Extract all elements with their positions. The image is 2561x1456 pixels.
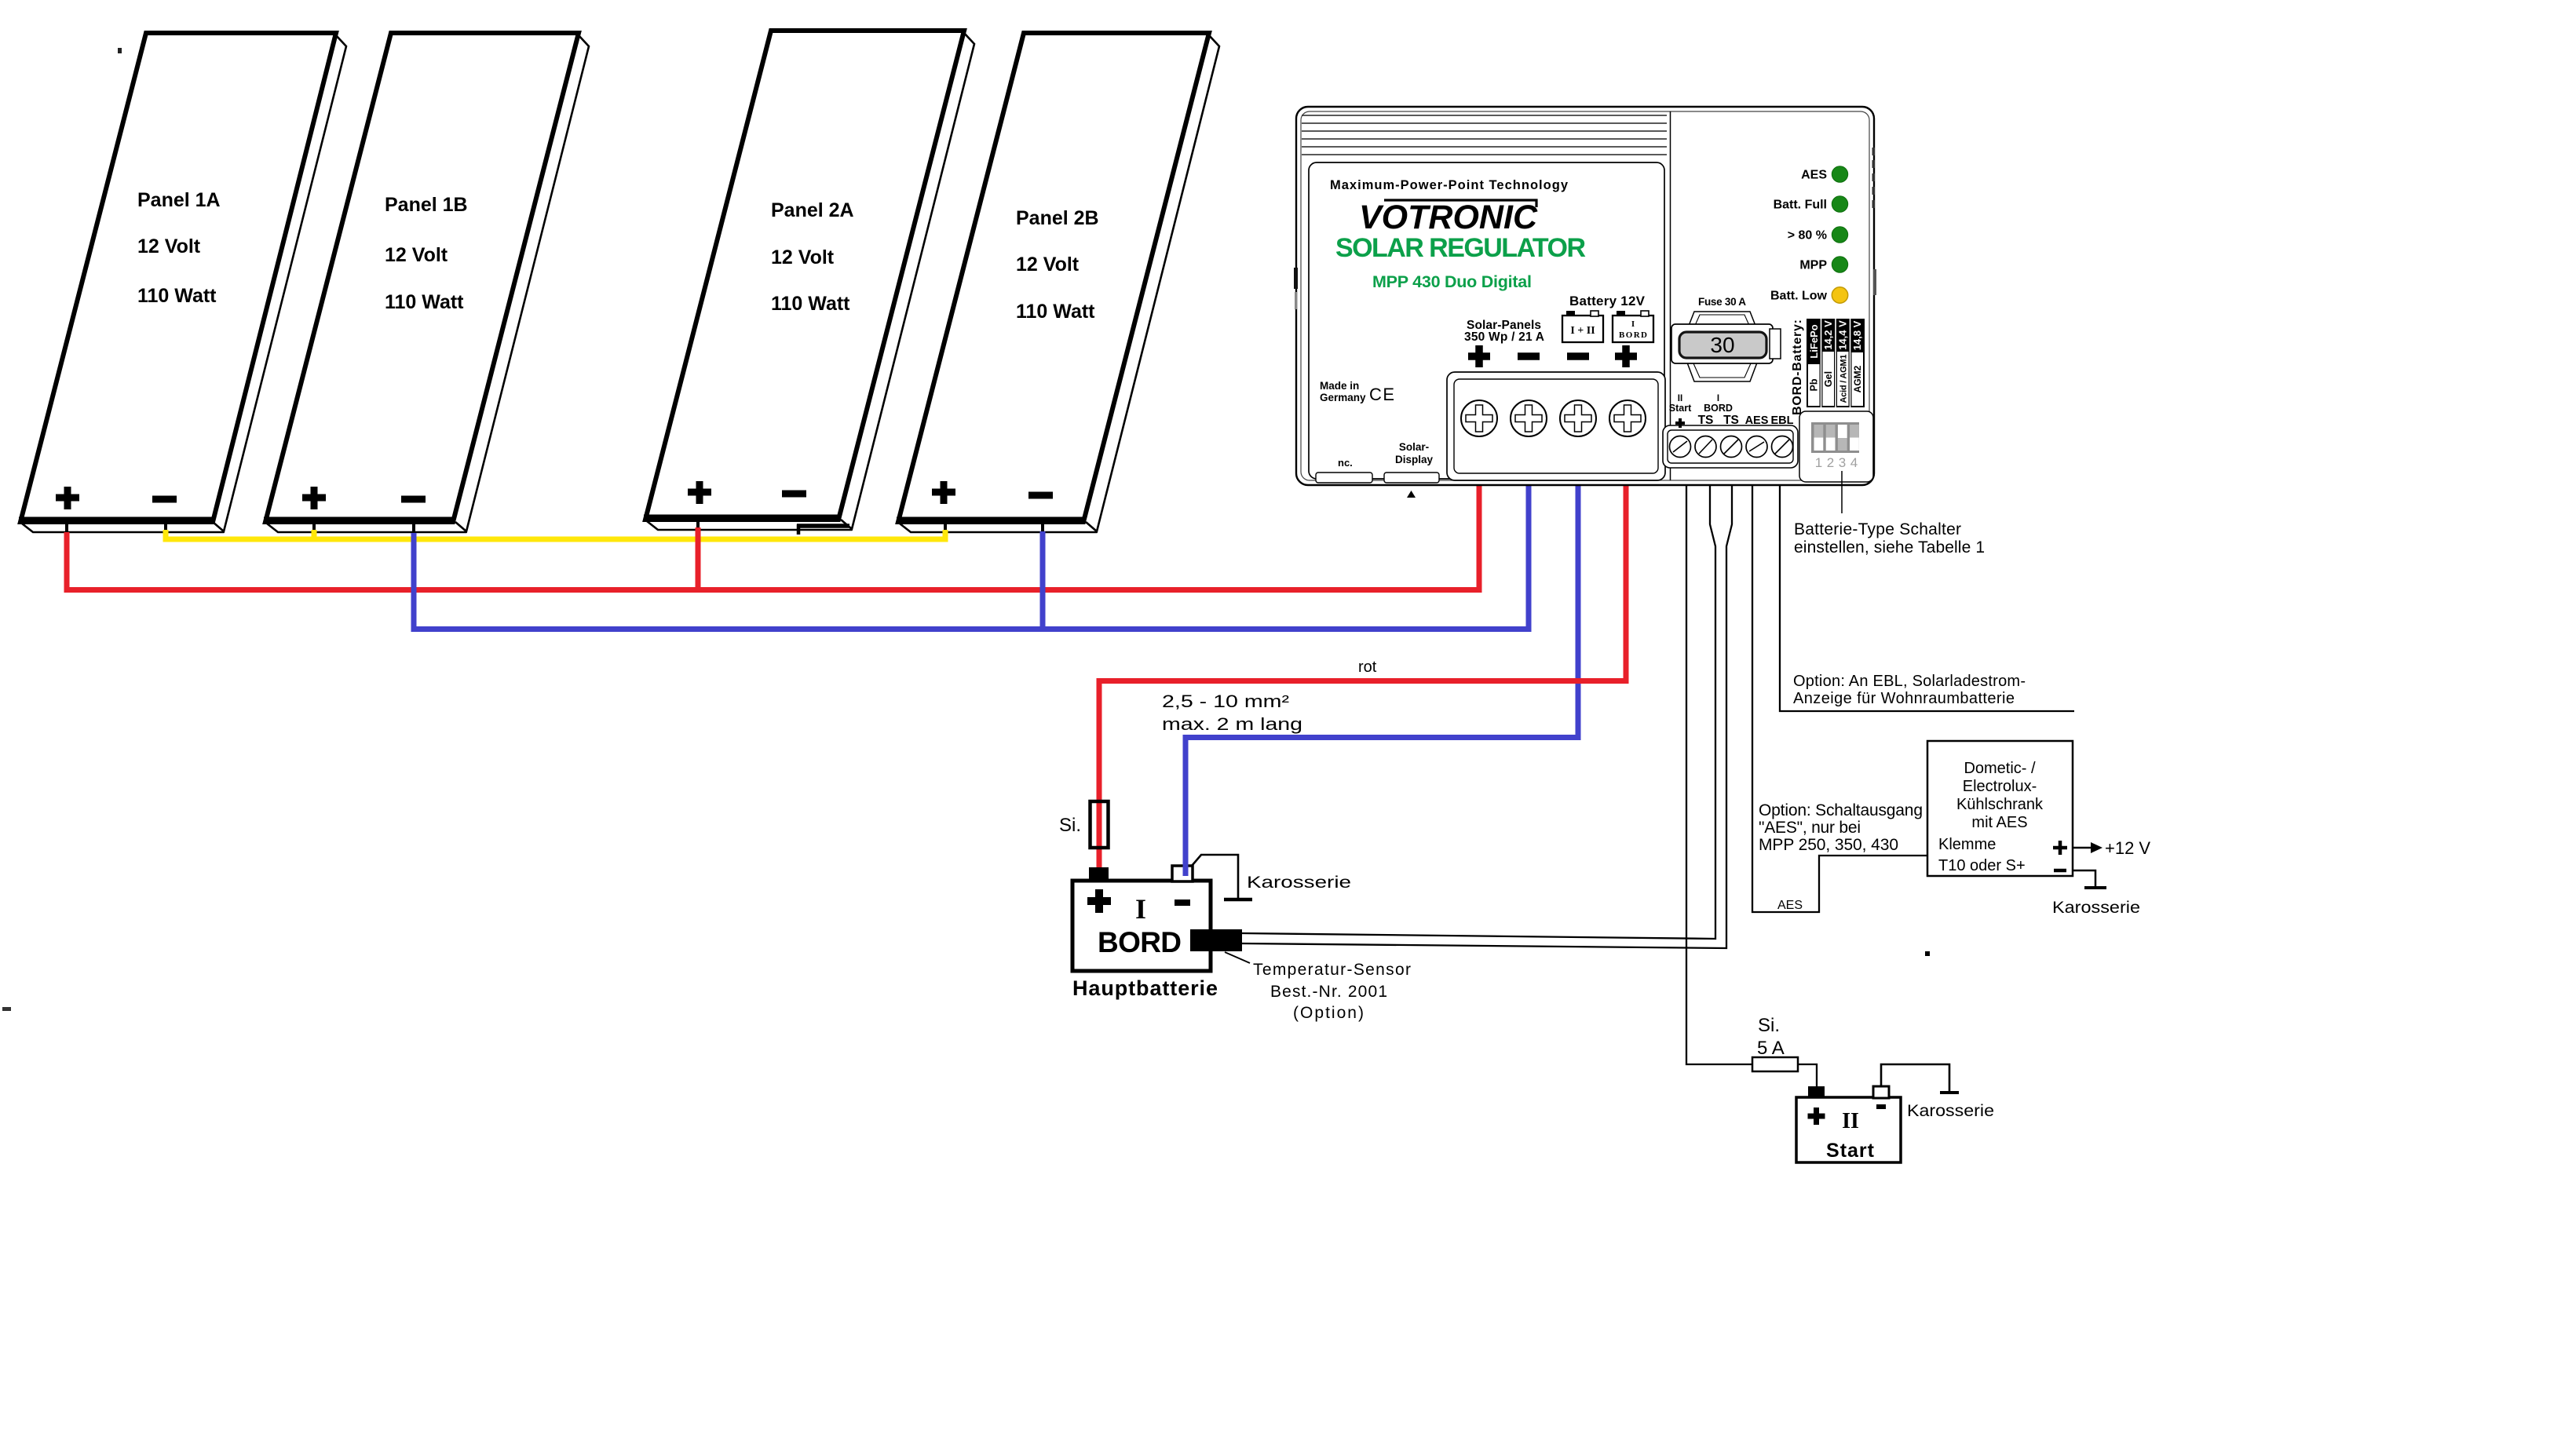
svg-text:AES: AES	[1745, 414, 1769, 427]
BORD-Battery type table	[1791, 319, 1865, 415]
svg-text:mit AES: mit AES	[1971, 814, 2027, 831]
sensor pointer line	[1225, 952, 1250, 963]
regulator front label panel	[1309, 162, 1664, 479]
svg-text:5 A: 5 A	[1757, 1038, 1785, 1059]
VOTRONIC logo	[1359, 199, 1538, 236]
TS sensor wire A	[1242, 480, 1715, 939]
wire stub panel 1A minus	[164, 520, 167, 532]
stray mark left edge	[2, 1007, 11, 1011]
wire stub panel 1B plus	[312, 521, 316, 532]
svg-text:Start: Start	[1669, 403, 1692, 414]
solar panel Panel 1B	[264, 33, 589, 532]
svg-text:Start: Start	[1826, 1140, 1875, 1162]
svg-text:Batt. Full: Batt. Full	[1774, 199, 1827, 212]
svg-text:Si.: Si.	[1758, 1015, 1780, 1036]
svg-text:Temperatur-Sensor: Temperatur-Sensor	[1253, 961, 1411, 979]
ground Karosserie at start battery	[1881, 1064, 1994, 1120]
svg-text:Panel 2A: Panel 2A	[771, 199, 854, 221]
svg-text:Karosserie: Karosserie	[1907, 1102, 1994, 1120]
svg-text:SOLAR REGULATOR: SOLAR REGULATOR	[1335, 233, 1586, 263]
svg-text:einstellen, siehe Tabelle 1: einstellen, siehe Tabelle 1	[1794, 538, 1985, 556]
regulator vertical divider	[1670, 111, 1671, 480]
svg-text:Hauptbatterie: Hauptbatterie	[1072, 976, 1218, 1000]
red battery plus wire regulator to fuse	[1099, 480, 1626, 870]
svg-text:(Option): (Option)	[1293, 1004, 1364, 1022]
svg-text:BORD: BORD	[1704, 403, 1733, 414]
svg-text:> 80 %: > 80 %	[1788, 229, 1827, 243]
svg-text:AGM2: AGM2	[1852, 365, 1863, 392]
svg-text:+12 V: +12 V	[2105, 838, 2150, 858]
svg-text:nc.: nc.	[1338, 457, 1353, 469]
svg-text:12 Volt: 12 Volt	[137, 235, 201, 257]
svg-text:12 Volt: 12 Volt	[385, 244, 448, 266]
Dometic Electrolux fridge box	[1927, 741, 2073, 876]
EBL output wire	[1780, 480, 2074, 711]
wire stub panel 1A plus	[65, 520, 68, 534]
stray mark top-left	[118, 48, 122, 53]
svg-text:Solar-: Solar-	[1399, 441, 1429, 453]
solar panel Panel 1A	[19, 33, 346, 532]
svg-text:EBL: EBL	[1771, 414, 1794, 427]
svg-text:Panel 1A: Panel 1A	[137, 189, 221, 211]
ground Karosserie at fridge	[2052, 870, 2140, 917]
screw terminal solar plus	[1461, 400, 1497, 436]
svg-text:BORD: BORD	[1619, 330, 1647, 340]
svg-text:Kühlschrank: Kühlschrank	[1956, 796, 2044, 813]
svg-text:Panel 2B: Panel 2B	[1016, 207, 1099, 229]
svg-text:Fuse 30 A: Fuse 30 A	[1698, 296, 1746, 308]
svg-text:Acid / AGM1: Acid / AGM1	[1839, 355, 1849, 403]
regulator cooling fins	[1302, 115, 1667, 155]
svg-text:"AES", nur bei: "AES", nur bei	[1759, 819, 1861, 837]
svg-text:Gel: Gel	[1823, 371, 1834, 387]
svg-text:110 Watt: 110 Watt	[1016, 301, 1095, 323]
red solar plus wire to regulator	[67, 480, 1479, 590]
DIP switch S1 battery type	[1799, 411, 1873, 482]
solar regulator U1 case	[1296, 107, 1874, 485]
svg-text:LiFePo: LiFePo	[1808, 324, 1820, 358]
svg-text:Germany: Germany	[1320, 392, 1366, 403]
svg-text:1: 1	[1815, 455, 1822, 470]
blue solar minus branch panel 2B	[1040, 531, 1046, 626]
fuse F1 30A holder	[1671, 296, 1781, 381]
screw terminal battery plus	[1609, 400, 1646, 436]
svg-text:Batterie-Type Schalter: Batterie-Type Schalter	[1794, 520, 1961, 538]
svg-text:AES: AES	[1777, 899, 1803, 912]
blue solar minus wire to regulator	[414, 480, 1529, 629]
wire stub panel 2B plus	[944, 521, 947, 532]
svg-text:Best.-Nr. 2001: Best.-Nr. 2001	[1270, 983, 1387, 1001]
screw terminal battery minus	[1560, 400, 1596, 436]
case bottom tabs	[1316, 473, 1372, 483]
svg-text:Dometic- /: Dometic- /	[1964, 760, 2036, 777]
wire stub panel 2A minus (black jumper)	[797, 524, 849, 528]
svg-text:CE: CE	[1369, 385, 1396, 404]
svg-text:110 Watt: 110 Watt	[385, 291, 464, 313]
svg-text:350 Wp / 21 A: 350 Wp / 21 A	[1464, 330, 1544, 344]
svg-text:Option: An EBL, Solarladestrom: Option: An EBL, Solarladestrom-	[1793, 673, 2026, 690]
battery icon I BORD	[1613, 311, 1653, 342]
blue wire tip into minus terminal	[1183, 863, 1189, 876]
svg-text:Panel 1B: Panel 1B	[385, 194, 468, 216]
red solar plus branch panel 2A	[696, 527, 701, 587]
svg-text:II: II	[1842, 1109, 1859, 1133]
svg-text:110 Watt: 110 Watt	[771, 293, 850, 315]
solar panel Panel 2A	[644, 31, 974, 530]
svg-text:12 Volt: 12 Volt	[1016, 254, 1080, 276]
terminal polarity battery plus	[1615, 345, 1637, 367]
svg-text:12 Volt: 12 Volt	[771, 246, 835, 268]
svg-text:MPP: MPP	[1799, 259, 1827, 272]
regulator terminal well	[1447, 372, 1665, 480]
terminal polarity solar plus	[1468, 345, 1490, 367]
wire stub panel 1B minus	[412, 521, 415, 535]
svg-text:110 Watt: 110 Watt	[137, 285, 217, 307]
svg-text:4: 4	[1850, 455, 1858, 470]
case edge tick marks right	[1872, 148, 1877, 295]
yellow series wire panels	[163, 530, 169, 542]
wire stub panel 2A plus	[696, 517, 700, 529]
temperature sensor block	[1190, 929, 1242, 951]
terminal polarity solar minus	[1518, 352, 1540, 360]
solar display pointer triangle	[1407, 491, 1416, 498]
svg-text:Batt. Low: Batt. Low	[1770, 290, 1828, 303]
svg-text:3: 3	[1839, 455, 1846, 470]
svg-text:TS: TS	[1698, 414, 1714, 427]
svg-text:I: I	[1135, 893, 1146, 925]
svg-text:I + II: I + II	[1570, 325, 1595, 337]
svg-text:max. 2 m lang: max. 2 m lang	[1162, 714, 1302, 734]
svg-text:30: 30	[1710, 333, 1734, 357]
svg-text:Klemme: Klemme	[1938, 836, 1996, 853]
svg-text:14,4 V: 14,4 V	[1837, 320, 1849, 350]
small terminal strip II/I	[1663, 425, 1798, 468]
svg-text:AES: AES	[1801, 169, 1827, 182]
stray dot near AES corner	[1925, 951, 1930, 956]
svg-text:Karosserie: Karosserie	[1247, 874, 1351, 892]
svg-text:2: 2	[1827, 455, 1834, 470]
start battery II	[1796, 1086, 1901, 1162]
svg-text:VOTRONIC: VOTRONIC	[1359, 199, 1538, 236]
svg-text:BORD-Battery:: BORD-Battery:	[1791, 319, 1804, 415]
svg-text:Display: Display	[1395, 454, 1434, 465]
svg-text:14,8 V: 14,8 V	[1851, 320, 1863, 350]
AES output wire	[1752, 480, 1927, 912]
battery icon I + II	[1562, 311, 1603, 342]
start battery plus wire	[1686, 480, 1752, 1064]
svg-text:BORD: BORD	[1098, 926, 1182, 958]
svg-text:Anzeige für Wohnraumbatterie: Anzeige für Wohnraumbatterie	[1793, 690, 2015, 707]
svg-text:Pb: Pb	[1809, 378, 1820, 391]
blue battery minus wire regulator to BORD battery	[1186, 480, 1578, 876]
ground Karosserie at BORD battery	[1192, 855, 1351, 900]
BORD battery Hauptbatterie	[1072, 866, 1218, 1000]
svg-text:Made in: Made in	[1320, 380, 1359, 392]
wire stub panel 2B minus	[1041, 520, 1044, 534]
svg-text:Electrolux-: Electrolux-	[1963, 778, 2037, 795]
svg-text:Si.: Si.	[1059, 815, 1081, 836]
svg-text:14,2 V: 14,2 V	[1822, 320, 1834, 350]
solar panel Panel 2B	[897, 33, 1219, 532]
terminal polarity battery minus	[1567, 352, 1589, 360]
svg-text:Karosserie: Karosserie	[2052, 899, 2140, 917]
svg-text:MPP 430 Duo Digital: MPP 430 Duo Digital	[1372, 272, 1532, 291]
TS sensor wire B	[1242, 480, 1732, 948]
+12V arrow output	[2073, 838, 2150, 858]
svg-text:MPP 250, 350, 430: MPP 250, 350, 430	[1759, 836, 1898, 854]
svg-text:Maximum-Power-Point Technology: Maximum-Power-Point Technology	[1330, 178, 1569, 192]
svg-text:rot: rot	[1358, 659, 1377, 676]
svg-text:Battery 12V: Battery 12V	[1569, 294, 1646, 308]
DIP pointer line	[1841, 471, 1843, 513]
svg-text:2,5 - 10 mm²: 2,5 - 10 mm²	[1162, 692, 1289, 711]
svg-text:TS: TS	[1723, 414, 1739, 427]
screw terminal solar minus	[1511, 400, 1547, 436]
case edge tick marks left	[1294, 268, 1298, 289]
svg-text:Option: Schaltausgang: Option: Schaltausgang	[1759, 801, 1923, 819]
svg-text:T10 oder S+: T10 oder S+	[1938, 857, 2026, 874]
svg-text:I: I	[1631, 319, 1635, 329]
